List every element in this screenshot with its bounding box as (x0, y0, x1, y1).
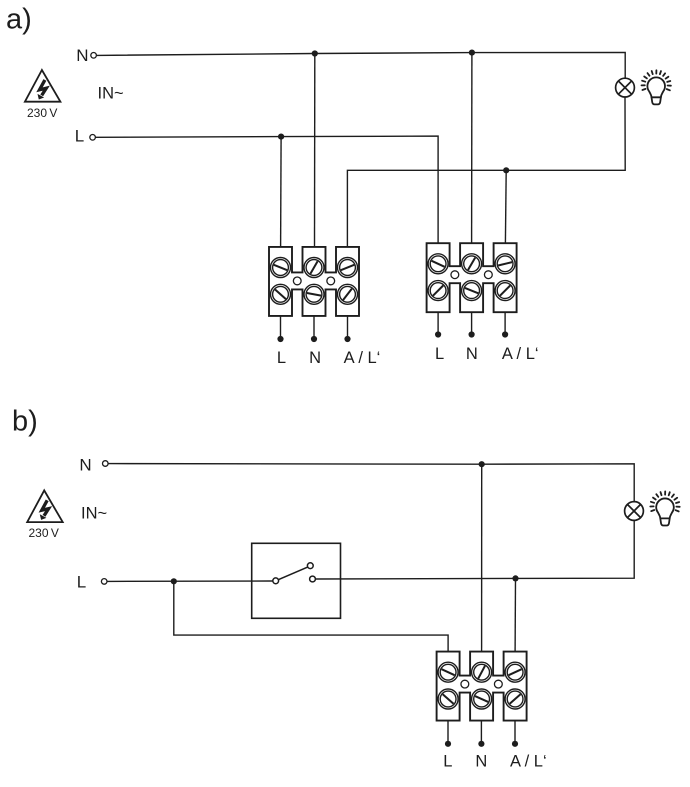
switch S1 contact upper (307, 563, 313, 569)
junction A/L (a) (503, 167, 509, 173)
TB2 pigtail A/L (504, 312, 506, 332)
svg-text:b): b) (12, 406, 38, 438)
wire lamp to TB1 A/L (a) (347, 97, 625, 247)
svg-text:N: N (475, 752, 487, 770)
wire L down to TB1 (a) (280, 137, 283, 247)
switch S1 box (252, 543, 341, 618)
TB3 pigtail A/L (514, 721, 516, 742)
HV warning triangle (a) (25, 70, 61, 102)
svg-text:A / L‘: A / L‘ (502, 345, 539, 363)
TB2 pigtail L (437, 312, 439, 332)
node N (a) (76, 46, 96, 65)
terminal block TB2 (a right) (427, 243, 517, 312)
svg-text:N: N (309, 349, 321, 367)
bulb icon (a) (642, 70, 671, 104)
node L (a) (75, 127, 96, 146)
TB1 pigtail L (280, 316, 282, 337)
junction N to TB3 (b) (479, 461, 485, 467)
svg-text:N: N (466, 345, 478, 363)
wire N down to TB1 (a) (314, 54, 316, 247)
HV warning triangle (b) (27, 490, 63, 522)
wire L to switch (b) (107, 580, 273, 582)
node N (b) (79, 455, 108, 474)
svg-text:a): a) (6, 4, 32, 36)
terminal block TB1 (a left) (269, 247, 359, 316)
junction N to TB1 (a) (312, 50, 318, 56)
wire L branch to TB3 L (b) (174, 581, 448, 651)
wire N down to TB3 (b) (481, 464, 483, 651)
svg-text:A / L‘: A / L‘ (344, 349, 381, 367)
junction N to TB2 (a) (469, 50, 475, 56)
svg-text:IN~: IN~ (98, 85, 124, 103)
svg-text:L: L (77, 572, 86, 591)
svg-text:N: N (76, 46, 88, 65)
svg-text:230 V: 230 V (28, 526, 58, 540)
svg-text:L: L (435, 345, 444, 363)
TB3 pigtail L (447, 721, 449, 742)
svg-text:L: L (277, 349, 286, 367)
wire N down to TB2 (a) (471, 53, 473, 244)
junction L branch (b) (171, 578, 177, 584)
junction L to TB1 (a) (278, 134, 284, 140)
switch S1 lever (278, 567, 307, 580)
TB2 pigtail N (471, 312, 473, 332)
terminal block TB3 (b) (437, 652, 527, 721)
bulb icon (b) (650, 491, 679, 525)
svg-text:IN~: IN~ (81, 504, 107, 522)
wire junction to TB2 A/L (a) (504, 170, 507, 243)
wire L bus (a) (96, 136, 439, 243)
TB1 pigtail A/L (347, 316, 349, 337)
wire N bus (a) (97, 52, 626, 78)
svg-text:L: L (75, 127, 84, 146)
lamp E2 (b) (625, 502, 644, 521)
wire switch to lamp (b) (316, 520, 635, 579)
TB3 pigtail N (480, 721, 482, 742)
wire N bus (b) (108, 464, 634, 502)
wire junction to TB3 A/L (b) (514, 578, 516, 651)
svg-text:N: N (79, 455, 91, 474)
svg-text:L: L (443, 752, 452, 770)
switch S1 contact left (273, 578, 279, 584)
switch S1 contact right (310, 576, 316, 582)
svg-text:A / L‘: A / L‘ (510, 752, 547, 770)
junction A/L (b) (512, 575, 518, 581)
TB1 pigtail N (313, 316, 315, 337)
lamp E1 (a) (616, 78, 635, 97)
node L (b) (77, 572, 107, 591)
svg-text:230 V: 230 V (27, 106, 57, 120)
